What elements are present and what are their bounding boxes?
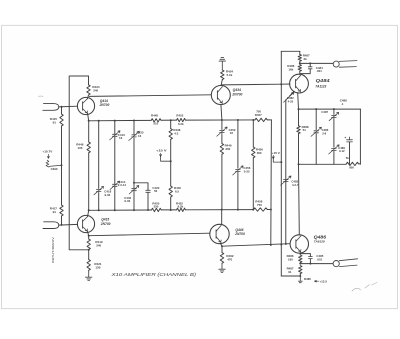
svg-text:750: 750 <box>257 203 262 207</box>
output jack P1 <box>333 61 339 67</box>
svg-text:470: 470 <box>227 257 232 261</box>
wire Q434 collector to right rail <box>221 83 290 86</box>
variable capacitor C489 <box>332 148 337 150</box>
node junction left rail to emitter chain <box>88 249 90 251</box>
resistor R486 16k <box>298 65 301 72</box>
node bus1 x134 <box>133 120 135 122</box>
node bottom right <box>299 275 301 277</box>
node +15V tap left <box>170 160 172 162</box>
svg-text:INPUT/9M/2V: INPUT/9M/2V <box>51 237 55 263</box>
wire J2 to Q415 base <box>59 223 78 226</box>
node base wire x270.8 <box>270 244 272 246</box>
wire Q414 collector <box>87 95 90 99</box>
wire subladder top rail <box>299 108 361 110</box>
svg-text:2N700: 2N700 <box>231 93 242 97</box>
wire branch x334 <box>333 109 335 114</box>
wire Q416 emitter down <box>221 246 223 252</box>
wire bus2 seg b <box>161 209 176 211</box>
svg-text:360: 360 <box>257 151 262 155</box>
resistor R416 4.7k feed <box>46 160 62 167</box>
wire subladder right vert <box>359 109 361 164</box>
wire J1 to Q414 base <box>59 105 78 108</box>
resistor R452 6.2k <box>177 118 186 121</box>
wire Q484 emitter <box>297 93 300 110</box>
resistor R440 6.5 <box>169 186 172 197</box>
node C484 tap <box>309 62 311 64</box>
wire tap to C420 branch <box>134 183 148 190</box>
resistor R424 240 <box>87 85 90 95</box>
svg-text:6.5: 6.5 <box>175 190 179 194</box>
wire bus1 seg a <box>89 119 152 121</box>
svg-text:4.2-7: 4.2-7 <box>292 183 299 187</box>
variable capacitor C446 9-02 <box>132 189 137 191</box>
svg-text:240: 240 <box>96 243 101 247</box>
wire right ladder vertical <box>270 120 273 245</box>
wire bus2 seg a <box>89 209 152 211</box>
wire branch x221.9 <box>221 120 223 130</box>
wire top bridge <box>70 75 89 77</box>
wire divider upper segment <box>61 107 63 114</box>
svg-text:2N700: 2N700 <box>100 222 111 226</box>
node bus2 x114.8 <box>114 209 116 211</box>
svg-text:4-25: 4-25 <box>288 99 294 103</box>
svg-text:91: 91 <box>53 120 57 124</box>
wire right rail bottom <box>280 245 282 277</box>
wire Q486 emitter <box>299 253 301 255</box>
node bus2 x253.3 <box>252 209 254 211</box>
svg-text:91: 91 <box>53 210 57 214</box>
svg-text:6.2k: 6.2k <box>178 204 184 208</box>
pencil mark bottom right b <box>365 283 377 289</box>
resistor R446 135 <box>87 142 90 153</box>
wire to output jack1 <box>300 62 333 64</box>
resistor R486b 165 <box>299 255 302 263</box>
wire emitter chain upper <box>88 236 90 239</box>
variable capacitor C487 <box>332 116 337 118</box>
node bus1 x170.7 <box>170 119 172 121</box>
node bus1 x253.3 <box>252 119 254 121</box>
wire divider middle segment <box>61 126 63 205</box>
variable capacitor C418 9-02 <box>96 190 101 192</box>
node J1 wire / divider <box>61 106 63 108</box>
resistor R456 360 <box>252 147 255 158</box>
resistor R417 91 <box>60 205 63 216</box>
capacitor C484 .001 <box>309 63 311 66</box>
wire bus2 seg c <box>185 209 253 211</box>
node collector rail crossing <box>280 83 282 85</box>
svg-text:X10 AMPLIFIER (CHANNEL B): X10 AMPLIFIER (CHANNEL B) <box>110 272 197 277</box>
resistor R487b 91 <box>299 266 302 274</box>
svg-text:510: 510 <box>153 122 158 126</box>
node bus2 x148 <box>147 209 149 211</box>
wire branch x170.7 <box>170 120 172 128</box>
transistor Q434 <box>211 86 230 105</box>
wire bottom node to rail <box>281 275 300 277</box>
node bus1 x98.7 <box>98 120 100 122</box>
wire Q415 emitter <box>88 232 89 236</box>
svg-text:+10.7V: +10.7V <box>42 150 53 154</box>
svg-text:2N700: 2N700 <box>99 103 110 107</box>
resistor R487 2k <box>298 55 301 62</box>
svg-text:16: 16 <box>119 136 123 140</box>
arrow +15V right <box>272 155 274 158</box>
svg-text:5k: 5k <box>346 156 350 160</box>
capacitor C485 .001 <box>300 254 310 257</box>
svg-text:C487: C487 <box>321 110 328 114</box>
node bus2 x88.7 <box>88 209 90 211</box>
wire Q415 emitter to Q416 base <box>89 233 210 236</box>
svg-text:91: 91 <box>288 270 292 274</box>
wire branch x98.7 <box>98 121 100 189</box>
node Q415 emitter <box>88 235 90 237</box>
svg-text:+13.5: +13.5 <box>319 279 327 283</box>
ground under Q415 chain <box>86 270 92 280</box>
trimmer capacitor C482 <box>286 91 295 99</box>
transistor Q415 <box>77 215 94 232</box>
wire divider lower segment <box>61 216 63 225</box>
svg-text:7A1123: 7A1123 <box>315 85 326 89</box>
svg-text:+15 V: +15 V <box>156 149 167 153</box>
svg-text:2-8: 2-8 <box>322 132 326 136</box>
svg-text:7A6129: 7A6129 <box>314 240 325 244</box>
node subladder x334 <box>333 108 335 110</box>
wire Q414 emitter <box>88 114 89 121</box>
svg-text:3-12: 3-12 <box>339 149 345 153</box>
svg-text:Q434: Q434 <box>233 88 241 92</box>
wire branch x114.8 <box>114 121 116 135</box>
wire subladder bottom corner <box>359 163 361 165</box>
svg-text:16k: 16k <box>288 68 293 72</box>
resistor R458 750 <box>253 208 267 211</box>
wire Q414 collector to Q434 base <box>89 95 211 97</box>
svg-text:900: 900 <box>349 166 354 170</box>
node bus1 x237.9 <box>237 119 239 121</box>
wire branch x134 <box>133 121 135 135</box>
wire R486b to node <box>299 263 301 264</box>
svg-text:16: 16 <box>138 134 142 138</box>
wire R454 to Q434 <box>221 80 222 86</box>
wire Q416 emitter to Q486 base <box>222 244 290 247</box>
resistor R488 51 <box>297 126 300 134</box>
svg-text:.001: .001 <box>316 69 322 73</box>
node +15V tap right <box>280 161 282 163</box>
svg-text:51: 51 <box>303 128 307 132</box>
resistor R419 240 <box>87 239 90 250</box>
node bus2 x221.7 <box>221 209 223 211</box>
resistor R490 900 <box>346 162 358 165</box>
node output1 <box>299 62 301 64</box>
node bus2 x98.7 <box>98 209 100 211</box>
svg-text:R488: R488 <box>304 277 311 281</box>
wire bus1 seg c <box>185 119 255 121</box>
wire R486 to Q484 <box>299 71 301 74</box>
svg-text:R448: R448 <box>151 113 158 117</box>
input jack J1 <box>43 104 59 111</box>
node bus1 x221.9 <box>221 119 223 121</box>
variable capacitor C452 16 <box>220 131 225 133</box>
power terminal center <box>219 57 225 70</box>
wire right rail upper <box>280 51 282 84</box>
resistor R457 750 <box>255 118 267 121</box>
svg-text:2N700: 2N700 <box>234 232 245 236</box>
node subladder x316 <box>315 108 317 110</box>
node C485 tap <box>309 263 311 265</box>
resistor R422 6.2k <box>177 208 186 211</box>
resistor R448 510 <box>151 119 161 122</box>
node +10.7V tap <box>61 164 63 166</box>
wire branch x88.7 <box>88 121 90 142</box>
transistor Q484 <box>290 74 309 93</box>
wire emitter chain mid <box>88 250 90 260</box>
svg-text:+15 V: +15 V <box>272 151 280 155</box>
transistor Q414 <box>77 97 94 114</box>
svg-text:130: 130 <box>95 265 100 269</box>
arrow +10.7V <box>47 154 49 158</box>
node J2 divider <box>61 224 63 226</box>
wire bus1 seg d <box>267 119 271 121</box>
pencil mark bottom right a <box>352 288 361 291</box>
node bus2 x170.7 <box>170 209 172 211</box>
node Q414 emitter on bus <box>88 120 90 122</box>
svg-text:750: 750 <box>256 110 261 114</box>
svg-text:C390: C390 <box>51 167 58 171</box>
svg-text:Q484: Q484 <box>316 78 331 83</box>
terminal bottom right <box>298 276 302 283</box>
variable capacitor C483 on branch <box>281 176 291 185</box>
transistor Q486 <box>290 235 308 253</box>
resistor R421 130 <box>87 260 90 271</box>
svg-text:240: 240 <box>93 88 98 92</box>
resistor R454 5.1k <box>221 70 224 80</box>
resistor R415 91 <box>60 114 63 126</box>
wire branch x253.3 <box>252 120 254 147</box>
arrow +15V left <box>160 153 162 156</box>
wire bus2 corner <box>267 208 271 210</box>
wire emitter rail mid <box>298 109 300 126</box>
resistor R420 250 <box>152 208 162 211</box>
wire R424 top to bridge <box>88 76 90 85</box>
wire to output jack2 <box>300 263 333 265</box>
svg-text:16: 16 <box>230 131 234 135</box>
output jack P2 <box>333 261 339 267</box>
svg-text:6.2k: 6.2k <box>178 122 184 126</box>
variable capacitor C486 <box>314 131 319 133</box>
smudge top left <box>39 95 44 98</box>
resistor R449 300 <box>220 144 223 155</box>
node output2 <box>299 263 301 265</box>
node subladder topleft <box>298 108 300 110</box>
svg-text:9-02: 9-02 <box>124 199 130 203</box>
svg-text:9-02: 9-02 <box>105 193 111 197</box>
node bus2 x134 <box>133 209 135 211</box>
wire Q415 collector <box>88 210 89 216</box>
svg-text:+: + <box>344 136 346 140</box>
svg-text:5.1k: 5.1k <box>227 73 233 77</box>
node C482 branch end <box>285 243 287 245</box>
wire R487 to node <box>299 61 301 63</box>
wire left tall rail <box>69 76 89 250</box>
svg-text:2.2-14: 2.2-14 <box>118 183 127 187</box>
variable capacitor C414 2.2-14 <box>113 184 118 186</box>
wire right rail mid <box>280 84 282 162</box>
svg-text:250: 250 <box>154 205 159 209</box>
wire branch x237.9 <box>237 120 239 168</box>
svg-text:135: 135 <box>77 146 82 150</box>
svg-text:2k: 2k <box>304 57 308 61</box>
resistor R462 470 <box>220 253 223 264</box>
svg-text:.001: .001 <box>317 258 323 262</box>
variable capacitor C433 16 <box>132 135 137 137</box>
wire Q416 collector <box>221 210 223 225</box>
svg-text:4.3: 4.3 <box>174 132 178 136</box>
node bus2 x237.9 <box>237 209 239 211</box>
node subladder botleft <box>298 163 300 165</box>
wire branch x316 <box>315 109 317 130</box>
variable capacitor C413 16 <box>113 134 118 136</box>
wire Q416 emitter <box>221 244 223 247</box>
capacitor C420 56 <box>146 190 150 192</box>
svg-text:56: 56 <box>154 189 158 193</box>
wire Q434 emitter <box>221 104 222 120</box>
node right rail base crossing <box>280 244 282 246</box>
node bus2 right corner <box>270 208 272 210</box>
node Q416 emitter <box>221 245 223 247</box>
variable capacitor C456 5-25 <box>236 169 241 171</box>
node bus1 x114.8 <box>114 120 116 122</box>
svg-text:165: 165 <box>288 258 293 262</box>
resistor R438 4.3 <box>169 129 172 140</box>
wire R487b to node <box>299 274 301 276</box>
ground under Q416 <box>219 263 225 272</box>
electrolytic capacitor C490 <box>349 142 351 164</box>
svg-text:R452: R452 <box>176 113 183 117</box>
wire bus1 seg b <box>161 119 177 121</box>
svg-text:300: 300 <box>225 147 230 151</box>
input jack J2 <box>43 222 59 229</box>
wire C482 branch <box>285 100 287 244</box>
wire emitter rail lower <box>298 164 301 234</box>
svg-text:.1: .1 <box>341 102 344 106</box>
wire R487 top lead <box>299 51 301 54</box>
svg-text:5-25: 5-25 <box>244 169 250 173</box>
wire top right bridge <box>281 50 300 52</box>
node branch x134 tap <box>133 182 135 184</box>
wire C420 to bus2 <box>147 193 149 210</box>
wire subladder bottom rail <box>299 163 347 165</box>
transistor Q416 <box>210 224 229 243</box>
